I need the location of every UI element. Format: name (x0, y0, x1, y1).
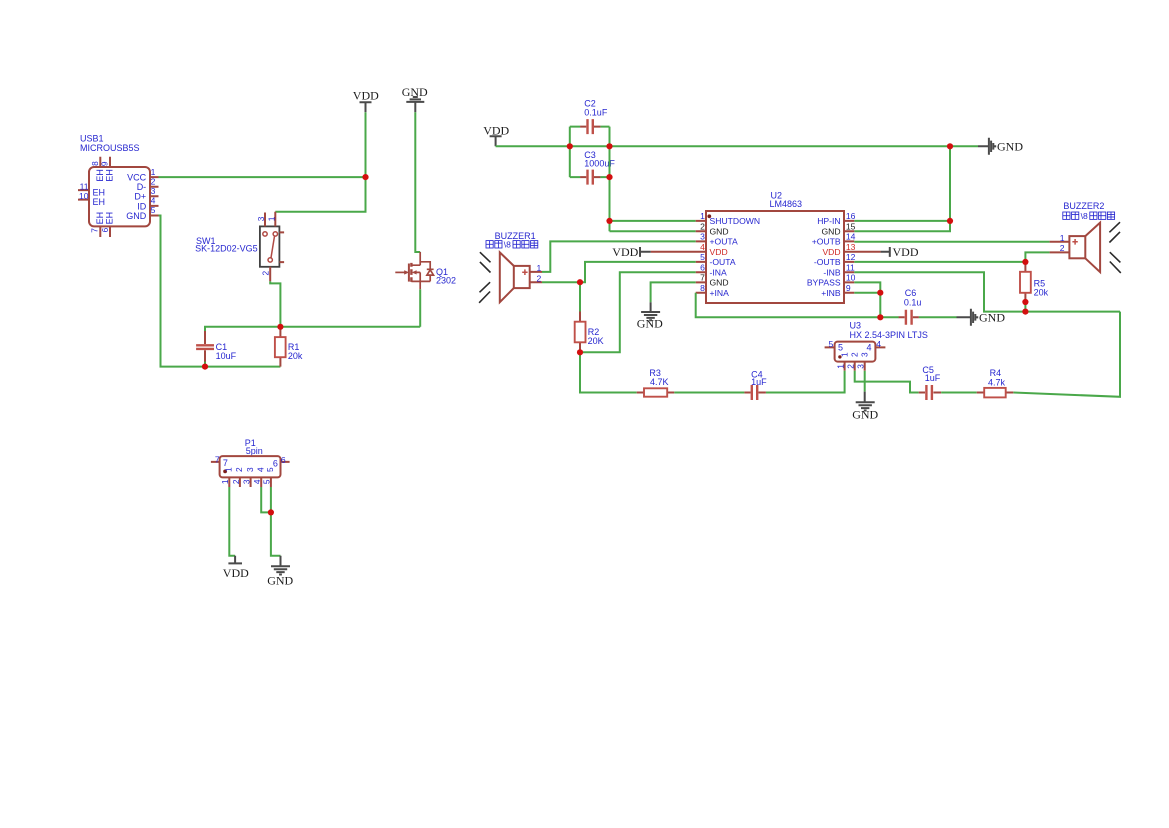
wire P1 pin 5 to GND (271, 487, 281, 556)
svg-text:1: 1 (839, 352, 849, 357)
svg-text:SK-12D02-VG5: SK-12D02-VG5 (195, 243, 258, 253)
svg-text:20k: 20k (1034, 288, 1049, 298)
svg-text:3: 3 (245, 467, 255, 472)
svg-text:C6: C6 (905, 288, 917, 298)
svg-text:GND: GND (821, 227, 840, 237)
svg-text:0.1u: 0.1u (904, 298, 922, 308)
svg-text:+INA: +INA (710, 288, 730, 298)
svg-text:1: 1 (266, 216, 276, 221)
wire R2 drop (579, 282, 581, 313)
svg-text:16: 16 (846, 211, 856, 221)
svg-text:BYPASS: BYPASS (807, 278, 841, 288)
capacitor C3 1000uF (580, 150, 615, 185)
svg-text:13: 13 (846, 242, 856, 252)
svg-text:1: 1 (151, 167, 156, 177)
svg-text:9: 9 (846, 283, 851, 293)
capacitor C1 10uF (196, 331, 237, 362)
op-amp U2 LM4863 (651, 190, 881, 303)
svg-text:ID: ID (137, 201, 147, 211)
junction dots (drawn on top) (202, 143, 1029, 515)
svg-text:5: 5 (838, 343, 843, 353)
wire USB GND pin 5 down (159, 216, 281, 367)
svg-text:7: 7 (89, 228, 99, 233)
power flag VDD (below P1) (223, 556, 249, 581)
resistor R1 20k (275, 328, 303, 367)
wire VDD to C2 rail (496, 145, 570, 147)
svg-text:EH: EH (105, 212, 115, 225)
svg-text:3: 3 (856, 364, 866, 369)
svg-text:EH: EH (105, 169, 115, 182)
svg-text:20k: 20k (288, 351, 303, 361)
ground GND (right end of rail) (978, 138, 1023, 155)
wire VCC row (159, 176, 366, 178)
svg-text:4: 4 (255, 467, 265, 472)
svg-text:1: 1 (700, 211, 705, 221)
wire C5 to R4 (941, 392, 977, 394)
svg-text:GND: GND (637, 317, 663, 331)
capacitor C5 1uF (919, 365, 942, 400)
svg-text:D+: D+ (134, 192, 146, 202)
ground GND (below P1) (267, 556, 293, 588)
svg-text:4: 4 (252, 479, 262, 484)
svg-text:2: 2 (231, 479, 241, 484)
svg-text:5: 5 (829, 339, 834, 349)
svg-text:1uF: 1uF (751, 377, 767, 387)
svg-text:EH: EH (95, 212, 105, 225)
svg-text:1: 1 (537, 263, 542, 273)
connector P1 5pin (211, 438, 290, 487)
svg-text:GND: GND (126, 211, 147, 221)
svg-text:12: 12 (846, 252, 856, 262)
wire C2/C3 left rail (570, 127, 610, 178)
svg-text:5pin: 5pin (246, 446, 263, 456)
svg-text:LM4863: LM4863 (770, 199, 803, 209)
svg-text:-OUTB: -OUTB (814, 257, 841, 267)
wire row C1/R1/Q1 source (205, 327, 420, 332)
wire C2/C3 right rail down to U2 pins 1,2 (610, 127, 696, 232)
ground GND (U3 pin 3) (852, 392, 878, 422)
svg-text:4.7K: 4.7K (650, 377, 669, 387)
svg-text:HP-IN: HP-IN (817, 216, 840, 226)
capacitor C6 0.1u (899, 288, 922, 325)
svg-text:D-: D- (137, 182, 147, 192)
wire R5 bottom tail (1024, 302, 1026, 312)
wire Q1 source drop (419, 289, 421, 327)
svg-text:2: 2 (846, 364, 856, 369)
svg-text:4: 4 (867, 343, 872, 353)
wire R2 bottom down to bottom row (580, 352, 637, 392)
svg-text:3: 3 (151, 186, 156, 196)
svg-text:2: 2 (1060, 243, 1065, 253)
wire VDD to VCC junction (365, 112, 367, 177)
wire +INB (854, 292, 880, 294)
svg-text:6: 6 (281, 455, 286, 465)
svg-text:\8: \8 (1081, 211, 1088, 221)
wire +OUTB to buzzer2 pin1 (854, 241, 1049, 243)
ground GND (U2 pin 7) (637, 302, 663, 330)
svg-text:8: 8 (700, 283, 705, 293)
svg-text:+OUTB: +OUTB (812, 237, 841, 247)
svg-text:10: 10 (79, 191, 89, 201)
label BUZZER1 chinese 喇叭\8欧阻抗 (486, 241, 538, 248)
svg-text:2302: 2302 (436, 276, 456, 286)
svg-text:5: 5 (262, 479, 272, 484)
svg-text:15: 15 (846, 221, 856, 231)
svg-text:-INB: -INB (823, 268, 840, 278)
svg-text:4.7k: 4.7k (988, 378, 1006, 388)
svg-text:2: 2 (234, 467, 244, 472)
svg-text:7: 7 (215, 455, 220, 465)
svg-text:EH: EH (95, 169, 105, 182)
svg-text:6: 6 (273, 458, 278, 468)
svg-text:SHUTDOWN: SHUTDOWN (710, 216, 761, 226)
svg-text:+INB: +INB (821, 288, 841, 298)
wire U2 pin7 to GND (651, 282, 696, 302)
connector U3 HX 2.54-3PIN LTJS (825, 321, 928, 371)
svg-text:2: 2 (700, 221, 705, 231)
svg-text:VDD: VDD (710, 247, 728, 257)
wire +INA down and right (bypass row) (696, 293, 899, 318)
wire HP-IN rail (pin16/15) (854, 146, 950, 231)
svg-text:1: 1 (220, 479, 230, 484)
speaker BUZZER1 (479, 231, 542, 303)
svg-text:3: 3 (859, 352, 869, 357)
svg-text:1: 1 (835, 364, 845, 369)
svg-text:-INA: -INA (710, 268, 727, 278)
wire BUZZER1 pin1 to +OUTA (542, 241, 696, 272)
svg-text:\8: \8 (504, 239, 511, 249)
svg-text:6: 6 (100, 227, 110, 232)
svg-text:VDD: VDD (822, 247, 840, 257)
wire BUZZER1 pin2 to -OUTA (542, 262, 696, 282)
power flag VDD (pin 4) (612, 245, 651, 259)
svg-text:2: 2 (261, 271, 271, 276)
wire -INA loop (580, 272, 696, 352)
svg-text:14: 14 (846, 232, 856, 242)
svg-text:4: 4 (876, 339, 881, 349)
svg-text:BUZZER2: BUZZER2 (1063, 201, 1104, 211)
svg-text:2: 2 (537, 273, 542, 283)
wire P1 pin 1 to VDD (229, 487, 235, 556)
speaker BUZZER2 (1050, 201, 1121, 273)
svg-text:10: 10 (846, 273, 856, 283)
svg-text:4: 4 (151, 196, 156, 206)
svg-text:GND: GND (710, 227, 729, 237)
svg-text:3: 3 (256, 216, 266, 221)
svg-text:VDD: VDD (612, 245, 638, 259)
wire right edge down (1013, 312, 1120, 397)
svg-text:EH: EH (93, 187, 106, 197)
transistor Q1 2302 (395, 252, 456, 289)
svg-text:11: 11 (846, 262, 855, 272)
svg-text:11: 11 (80, 181, 89, 191)
svg-text:EH: EH (93, 197, 106, 207)
ground GND (top, above Q1) (402, 85, 428, 113)
power flag VDD (top left) (353, 89, 379, 113)
wire GND down to Q1 drain (415, 112, 420, 252)
svg-text:3: 3 (700, 232, 705, 242)
svg-text:GND: GND (710, 278, 729, 288)
wire -INB down to bottom right row (854, 272, 1120, 311)
svg-text:VDD: VDD (893, 245, 919, 259)
wire U3 pin1 down to C4 row (766, 371, 845, 393)
svg-text:VDD: VDD (223, 566, 249, 580)
svg-text:2: 2 (151, 176, 156, 186)
resistor R3 4.7K (637, 368, 675, 397)
svg-text:+OUTA: +OUTA (710, 237, 739, 247)
svg-text:GND: GND (979, 311, 1005, 325)
svg-text:4: 4 (700, 242, 705, 252)
svg-text:8: 8 (90, 161, 100, 166)
svg-text:10uF: 10uF (216, 351, 237, 361)
svg-text:6: 6 (700, 262, 705, 272)
resistor R5 20k (1020, 262, 1049, 302)
resistor R2 20K (575, 312, 604, 353)
svg-text:-OUTA: -OUTA (710, 257, 736, 267)
wire junction to SW1 pin 1 (275, 177, 365, 212)
label BUZZER2 chinese 喇叭\8欧阻抗 (1063, 212, 1115, 219)
svg-text:VCC: VCC (127, 173, 147, 183)
power flag VDD (pin 13) (881, 245, 919, 259)
svg-text:1: 1 (1060, 233, 1065, 243)
svg-text:5: 5 (700, 252, 705, 262)
svg-text:1: 1 (223, 467, 233, 472)
svg-text:USB1: USB1 (80, 133, 104, 143)
wire -OUTB to buzzer2/R5 (854, 252, 1049, 262)
svg-text:9: 9 (99, 161, 109, 166)
svg-text:3: 3 (241, 479, 251, 484)
wire C1 bottom tail (204, 362, 206, 367)
wire main supply rail (570, 145, 978, 147)
svg-text:MICROUSB5S: MICROUSB5S (80, 143, 140, 153)
svg-text:GND: GND (267, 574, 293, 588)
wire U3 pin2 to C5 (855, 371, 919, 393)
resistor R4 4.7k (977, 368, 1014, 397)
svg-text:5: 5 (151, 205, 156, 215)
svg-text:VDD: VDD (353, 89, 379, 103)
wire SW1 pin 2 down (270, 281, 280, 327)
svg-text:1000uF: 1000uF (584, 159, 615, 169)
capacitor C2 0.1uF (580, 99, 608, 134)
ground GND (right of C6) (957, 309, 1006, 326)
wire U3 pin3 to GND (864, 371, 866, 392)
switch SW1 SK-12D02-VG5 (195, 212, 284, 281)
svg-text:5: 5 (265, 467, 275, 472)
svg-text:HX 2.54-3PIN LTJS: HX 2.54-3PIN LTJS (850, 330, 928, 340)
wire BYPASS down (854, 282, 880, 317)
wire P1 pin 4 (261, 487, 271, 512)
svg-text:BUZZER1: BUZZER1 (495, 231, 536, 241)
connector USB1 MICROUSB5S (78, 133, 159, 237)
wire C6 to GND (919, 316, 957, 318)
wire R3 to C4 (674, 392, 744, 394)
capacitor C4 1uF (744, 369, 767, 400)
svg-text:1uF: 1uF (925, 373, 941, 383)
svg-text:2: 2 (850, 352, 860, 357)
svg-text:7: 7 (700, 273, 705, 283)
svg-text:0.1uF: 0.1uF (584, 107, 608, 117)
svg-text:GND: GND (852, 407, 878, 421)
svg-text:20K: 20K (588, 336, 604, 346)
svg-text:GND: GND (997, 140, 1023, 154)
svg-text:7: 7 (223, 458, 228, 468)
power flag VDD (left of C2) (483, 123, 509, 146)
